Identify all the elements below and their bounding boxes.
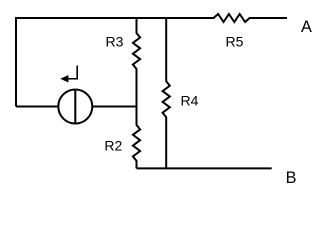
svg-text:R3: R3 — [106, 34, 124, 50]
svg-text:R2: R2 — [104, 138, 122, 154]
svg-text:B: B — [286, 169, 297, 187]
svg-text:R5: R5 — [226, 34, 244, 50]
svg-text:R4: R4 — [181, 93, 199, 109]
svg-text:A: A — [301, 18, 312, 36]
